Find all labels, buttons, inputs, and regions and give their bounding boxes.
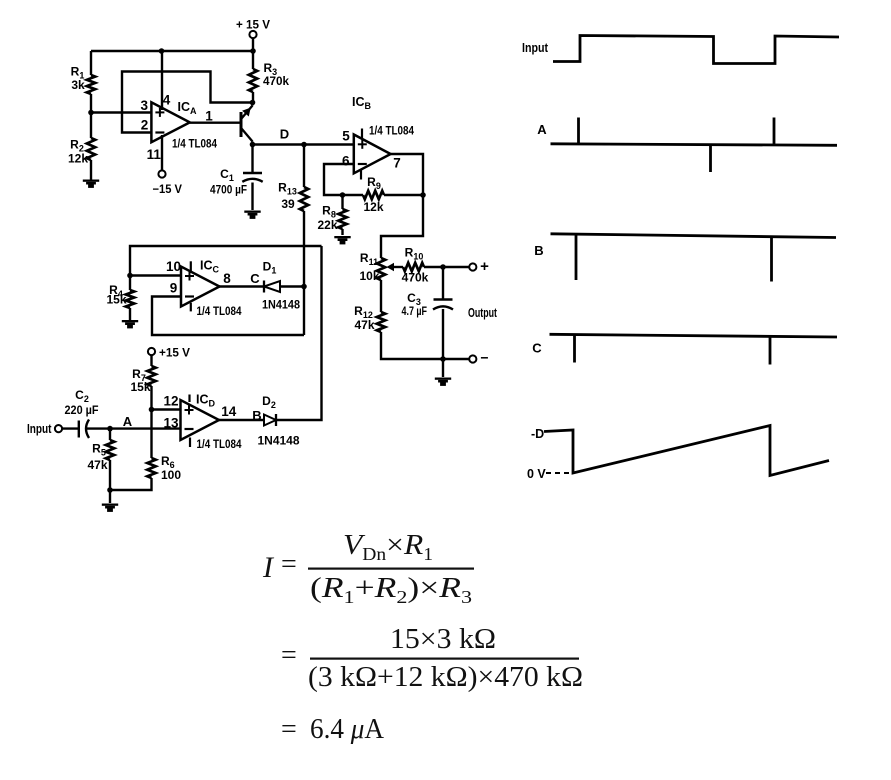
wire feedback to output [384, 194, 423, 196]
formula line 2: = 15 x 3k / (3k+12k) x 470k [281, 623, 583, 693]
svg-text:6: 6 [342, 154, 350, 169]
terminal output + [469, 258, 489, 275]
junction (ground net) [107, 487, 113, 493]
op-amp U2 IC_B 1/4 TL084 [342, 95, 414, 180]
wire output down to R11 [381, 195, 423, 258]
wire pin 6 to feedback node [324, 164, 363, 195]
svg-text:Input: Input [522, 41, 549, 55]
resistor R4 15k [106, 276, 134, 321]
node B waveform label [534, 243, 543, 258]
junction (collector / R3 / feedback) [250, 100, 256, 106]
svg-text:1/4 TL084: 1/4 TL084 [197, 437, 242, 451]
svg-text:14: 14 [221, 404, 237, 419]
svg-text:A: A [123, 414, 133, 429]
ground [122, 320, 138, 328]
junction (pin 12 / R6) [149, 407, 155, 413]
svg-text:470k: 470k [263, 74, 289, 88]
svg-text:12k: 12k [68, 152, 88, 166]
ground [334, 236, 350, 244]
wire inverting feedback (pin 2 to collector node) [122, 72, 253, 133]
resistor R3 470k [249, 51, 290, 103]
ground [244, 211, 260, 219]
wire pin 9 to node D net [152, 297, 304, 336]
resistor R2 12k [68, 113, 95, 180]
svg-text:12: 12 [163, 394, 178, 409]
ground [102, 490, 118, 512]
svg-text:1/4 TL084: 1/4 TL084 [172, 137, 217, 151]
wire R7 to pin 12 [150, 386, 152, 410]
ground [83, 180, 99, 188]
svg-text:=: = [281, 549, 297, 580]
op-amp U4 IC_D 1/4 TL084 [163, 393, 241, 452]
resistor R13 39 [278, 181, 308, 212]
svg-text:2: 2 [141, 118, 149, 133]
svg-text:-D: -D [531, 427, 544, 441]
svg-text:−15 V: −15 V [153, 182, 183, 196]
svg-text:9: 9 [170, 281, 178, 296]
wire input to C2 [62, 427, 79, 429]
wire pin 12 [152, 408, 181, 410]
svg-text:3k: 3k [71, 78, 85, 92]
svg-text:15k: 15k [130, 380, 150, 394]
svg-text:4: 4 [163, 93, 171, 108]
svg-text:(R1​+R2​)×R3​: (R1​+R2​)×R3​ [310, 572, 472, 607]
wire node A [87, 427, 181, 429]
node A waveform label [537, 122, 547, 137]
svg-text:C: C [250, 271, 260, 286]
wire D2 up to IC_C pin10 net [276, 246, 322, 420]
capacitor C2 220uF [65, 388, 99, 438]
svg-text:6.4 μA: 6.4 μA [310, 713, 384, 745]
wire pin 14 output to node B [219, 419, 264, 421]
terminal +15V supply (IC_A section) [236, 18, 270, 39]
wire pin 11 to -15V [161, 135, 163, 171]
node C waveform trace [550, 334, 838, 364]
node C label [250, 271, 260, 286]
junction (C3 bottom) [440, 356, 446, 362]
formula line 3: = 6.4 uA [281, 713, 384, 745]
svg-text:100: 100 [161, 468, 181, 482]
resistor R5 47k [87, 429, 114, 490]
node D sawtooth trace [544, 426, 829, 476]
svg-text:4.7 µF: 4.7 µF [402, 304, 428, 318]
capacitor C3 4.7uF [402, 267, 454, 359]
label Output [468, 306, 498, 320]
resistor R9 12k feedback [363, 175, 384, 214]
terminal output - [469, 350, 488, 366]
svg-text:39: 39 [281, 197, 295, 211]
junction node D branch [301, 142, 307, 148]
node D label [280, 127, 289, 142]
svg-text:470k: 470k [402, 271, 429, 285]
junction (C3 top) [440, 264, 446, 270]
resistor R12 47k [354, 304, 385, 332]
svg-text:(3 kΩ+12 kΩ)×470 kΩ: (3 kΩ+12 kΩ)×470 kΩ [308, 661, 583, 693]
node B waveform trace [551, 234, 837, 282]
terminal -15V supply [153, 170, 183, 196]
formula line 1: I = VDn x R1 / (R1+R2) x R3 [262, 529, 474, 607]
svg-text:1/4 TL084: 1/4 TL084 [197, 304, 242, 318]
resistor R10 470k [402, 246, 429, 285]
svg-text:4700 µF: 4700 µF [210, 183, 247, 197]
svg-text:B: B [252, 408, 261, 423]
svg-text:B: B [534, 243, 543, 258]
svg-text:0 V: 0 V [527, 467, 546, 481]
wire to pin 3 [91, 111, 151, 113]
svg-text:1N4148: 1N4148 [258, 434, 300, 448]
wire node D [253, 143, 305, 145]
resistor R8 22k [317, 195, 346, 235]
wire node D to pin 5 [304, 143, 354, 145]
svg-text:1N4148: 1N4148 [262, 298, 300, 312]
wire pin 7 output [391, 154, 423, 195]
ground [435, 359, 451, 386]
node D waveform label [531, 427, 544, 441]
svg-text:D: D [280, 127, 289, 142]
junction node D (emitter/C1) [250, 142, 256, 148]
terminal +15V supply (IC_D section) [148, 346, 190, 360]
wire R11 to R12 [380, 280, 382, 312]
resistor R1 3k [71, 51, 96, 113]
junction (node A / R5) [107, 426, 113, 432]
wire pin 4 to +15V rail [161, 51, 163, 110]
diode D2 1N4148 [258, 394, 300, 448]
waveform Input label [522, 41, 549, 55]
terminal Input [27, 422, 62, 436]
svg-text:12k: 12k [363, 200, 383, 214]
svg-text:VDn​×R1​: VDn​×R1​ [343, 529, 433, 564]
op-amp U1 IC_A 1/4 TL084 [141, 93, 218, 163]
svg-text:−: − [480, 350, 488, 366]
resistor R7 15k [130, 366, 155, 394]
wire R6 to ground net [110, 478, 152, 490]
junction [159, 48, 165, 54]
junction (pin 10 / R4) [127, 273, 133, 279]
wire op-amp output to base [190, 121, 240, 123]
svg-text:1: 1 [205, 109, 213, 124]
transistor Q1 [241, 103, 253, 145]
wire [150, 355, 152, 366]
junction (pin7/R9) [420, 192, 426, 198]
svg-text:47k: 47k [87, 458, 107, 472]
svg-text:11: 11 [147, 147, 162, 162]
wire pin 10 [130, 274, 181, 276]
node A label [123, 414, 133, 429]
waveform 0V reference label [527, 467, 572, 481]
svg-text:47k: 47k [354, 318, 374, 332]
node A waveform trace [551, 118, 838, 173]
svg-text:3: 3 [141, 98, 149, 113]
wire [252, 38, 254, 51]
svg-text:5: 5 [342, 129, 350, 144]
wire to + output [424, 266, 470, 268]
svg-text:=: = [281, 714, 297, 745]
waveform Input trace [553, 36, 839, 64]
wire down to R6 [150, 410, 152, 459]
wire +15V rail [91, 50, 253, 52]
wire node D down to pin 9 net [303, 211, 305, 335]
svg-text:22k: 22k [317, 218, 337, 232]
svg-text:10k: 10k [359, 269, 379, 283]
svg-text:C: C [532, 341, 542, 356]
resistor R6 100 [147, 454, 181, 482]
svg-text:10: 10 [166, 259, 181, 274]
op-amp U3 IC_C 1/4 TL084 [166, 259, 242, 319]
wire node D down [303, 145, 305, 188]
wire pin10 net / top wire to D2 output [130, 246, 322, 276]
svg-text:=: = [281, 640, 297, 671]
svg-text:Output: Output [468, 306, 498, 320]
node C waveform label [532, 341, 542, 356]
svg-text:+15 V: +15 V [159, 346, 190, 360]
svg-text:220 µF: 220 µF [65, 403, 99, 417]
wire D1 to node D line [280, 285, 304, 287]
svg-text:7: 7 [393, 155, 401, 170]
svg-text:15×3 kΩ: 15×3 kΩ [390, 623, 496, 655]
junction (D1 / node D) [301, 284, 307, 290]
junction (R8 top) [340, 192, 346, 198]
svg-text:1/4 TL084: 1/4 TL084 [369, 124, 414, 138]
svg-text:8: 8 [223, 271, 231, 286]
capacitor C1 4700uF [210, 145, 263, 211]
svg-text:A: A [537, 122, 547, 137]
node B label [252, 408, 261, 423]
junction node (R1/R2 divider) [88, 110, 94, 116]
wire op-amp output to node C [220, 285, 265, 287]
junction [250, 48, 256, 54]
wire R12 to - output [381, 332, 470, 359]
svg-text:Input: Input [27, 422, 52, 436]
potentiometer R11 10k [359, 251, 403, 283]
svg-text:+: + [480, 258, 489, 275]
svg-text:15k: 15k [106, 293, 126, 307]
svg-text:+ 15 V: + 15 V [236, 18, 270, 32]
diode D1 1N4148 [262, 260, 300, 312]
